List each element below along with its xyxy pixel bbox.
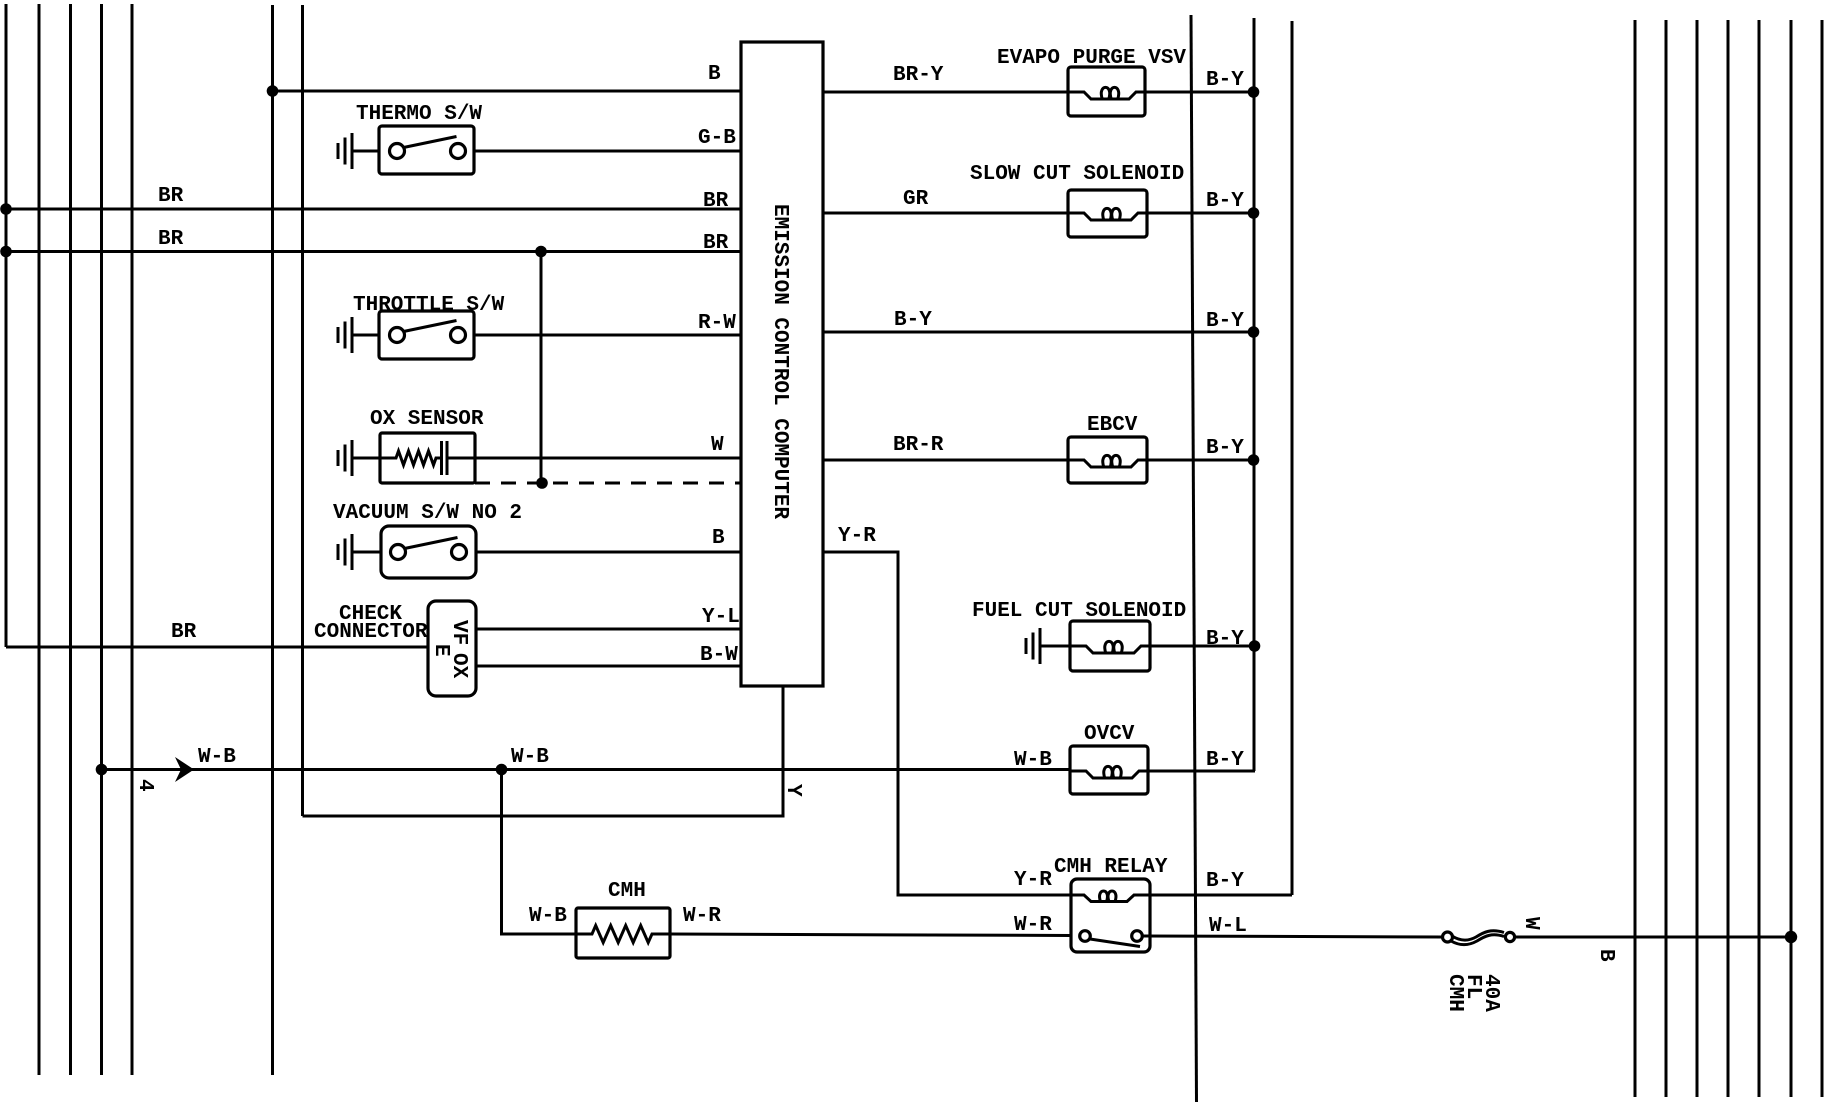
svg-text:W: W bbox=[1519, 917, 1542, 930]
solenoid L3: EBCV bbox=[1068, 414, 1147, 483]
node: junction BR lower / branch to dashed bbox=[535, 246, 547, 258]
svg-text:Y: Y bbox=[781, 784, 804, 797]
ground (vacuum switch) bbox=[338, 534, 381, 570]
label BR (left, upper) bbox=[158, 185, 184, 208]
wire: left bus line 4 bbox=[100, 4, 103, 1075]
label B bbox=[708, 63, 721, 86]
op-amp U1: emission control computer box bbox=[741, 42, 823, 686]
node: junction bus6/B wire bbox=[267, 85, 279, 97]
svg-text:B-Y: B-Y bbox=[1206, 190, 1244, 213]
svg-text:W: W bbox=[711, 434, 724, 457]
svg-text:VF: VF bbox=[447, 620, 470, 645]
wire W-R: CMH resistor to CMH relay bbox=[670, 934, 1071, 936]
switch S2: THROTTLE S/W bbox=[353, 294, 505, 359]
label G-B bbox=[698, 127, 736, 150]
label W-B (mid) bbox=[511, 746, 549, 769]
label R-W bbox=[698, 312, 736, 335]
svg-text:B: B bbox=[1594, 949, 1617, 962]
wire W-L: relay switch to fuse bbox=[1142, 936, 1443, 937]
wire B-Y: relay coil to bus bbox=[1150, 894, 1292, 897]
wire: branch from W-B down to CMH resistor bbox=[502, 770, 577, 935]
label W bbox=[711, 434, 724, 457]
wire: mid vertical line 3 (B-Y relay riser) bbox=[1291, 21, 1294, 895]
label 40A FL CMH (rotated) bbox=[1443, 974, 1502, 1012]
wire: vertical branch from BR lower to dashed OX line bbox=[540, 252, 543, 484]
node: junction bus1/BR upper bbox=[0, 203, 12, 215]
label BR (left, lower) bbox=[158, 228, 184, 251]
label B (vacuum) bbox=[712, 527, 725, 550]
svg-text:VACUUM S/W NO 2: VACUUM S/W NO 2 bbox=[333, 502, 522, 525]
label W-R (at CMH resistor) bbox=[683, 905, 721, 928]
wire: right bus line 4 bbox=[1727, 20, 1730, 1097]
wire: left bus line 2 bbox=[38, 4, 41, 1075]
label B-Y (slow cut) bbox=[1206, 190, 1244, 213]
node: junction bus4/W-B bbox=[96, 764, 108, 776]
svg-text:G-B: G-B bbox=[698, 127, 736, 150]
svg-text:W-B: W-B bbox=[529, 905, 567, 928]
label W-B (left) bbox=[198, 746, 236, 769]
node: junction B-Y mid bbox=[1248, 326, 1260, 338]
wire: right bus line 6 bbox=[1790, 20, 1793, 1097]
wire BR-R: computer to EBCV bbox=[823, 459, 1068, 462]
wire GR: computer to slow cut solenoid bbox=[823, 212, 1068, 215]
label BR (at computer, upper) bbox=[703, 190, 729, 213]
svg-text:BR-Y: BR-Y bbox=[893, 64, 944, 87]
svg-text:W-R: W-R bbox=[683, 905, 721, 928]
wire: left bus line 3 bbox=[69, 4, 72, 1075]
wire B: vacuum switch to computer bbox=[476, 551, 741, 554]
label B (rotated) bbox=[1594, 949, 1617, 962]
svg-text:W-R: W-R bbox=[1014, 914, 1052, 937]
svg-text:B-W: B-W bbox=[700, 644, 738, 667]
ground (fuel cut solenoid) bbox=[1026, 628, 1070, 664]
svg-text:CMH: CMH bbox=[608, 880, 646, 903]
resistor R1: CMH bbox=[576, 880, 670, 958]
wire Y-R: computer to CMH relay coil bbox=[823, 552, 1071, 895]
label B-Y (mid right) bbox=[1206, 310, 1244, 333]
svg-text:OX: OX bbox=[447, 653, 470, 679]
wire: right bus line 2 bbox=[1665, 20, 1668, 1097]
wire: left bus line 1 bbox=[5, 4, 8, 647]
wire B-Y: fuel cut solenoid to bus bbox=[1150, 645, 1255, 648]
label B-Y (EBCV) bbox=[1206, 437, 1244, 460]
node: junction W wire / right bus line 6 bbox=[1785, 931, 1797, 943]
ground (ox sensor) bbox=[338, 440, 380, 476]
svg-text:W-B: W-B bbox=[198, 746, 236, 769]
relay K1: CMH RELAY bbox=[1054, 856, 1168, 952]
svg-text:B: B bbox=[708, 63, 721, 86]
label GR bbox=[903, 188, 929, 211]
svg-text:Y-R: Y-R bbox=[1014, 869, 1052, 892]
label Y-L bbox=[702, 606, 740, 629]
label B-Y (evapo) bbox=[1206, 69, 1244, 92]
svg-text:THERMO S/W: THERMO S/W bbox=[356, 103, 482, 126]
svg-text:BR: BR bbox=[703, 232, 729, 255]
wire Y-L: check connector to computer bbox=[476, 628, 741, 631]
svg-text:SLOW CUT SOLENOID: SLOW CUT SOLENOID bbox=[970, 163, 1184, 186]
label B-Y (fuel cut) bbox=[1206, 628, 1244, 651]
node: junction B-Y slow cut bbox=[1248, 207, 1260, 219]
label W-R (relay) bbox=[1014, 914, 1052, 937]
wire: right bus line 5 bbox=[1758, 20, 1761, 1097]
label Y-R (top) bbox=[838, 525, 876, 548]
ground (thermo switch) bbox=[338, 133, 379, 169]
node: junction B-Y EBCV bbox=[1248, 454, 1260, 466]
wire: net Y from bus to computer bottom bbox=[303, 686, 784, 816]
label BR-Y bbox=[893, 64, 944, 87]
wire: right bus line 7 bbox=[1821, 20, 1824, 1097]
svg-text:BR: BR bbox=[703, 190, 729, 213]
svg-text:CMH RELAY: CMH RELAY bbox=[1054, 856, 1168, 879]
svg-text:CONNECTOR: CONNECTOR bbox=[314, 621, 428, 644]
wire: right bus line 3 bbox=[1696, 20, 1699, 1097]
wire BR-Y: computer to evapo purge VSV bbox=[823, 91, 1068, 94]
wire: left bus line 5 bbox=[131, 4, 134, 1075]
fuse F1: 40A FL CMH bbox=[1443, 931, 1515, 945]
wire: left bus line 6 bbox=[271, 5, 274, 1075]
arrow on W-B wire bbox=[175, 757, 194, 782]
label B-Y (OVCV) bbox=[1206, 749, 1244, 772]
label W (fuse, rotated) bbox=[1519, 917, 1542, 930]
switch S3: VACUUM S/W NO 2 bbox=[333, 502, 522, 578]
wire: left bus line 7 bbox=[301, 5, 304, 816]
label W-B (OVCV) bbox=[1014, 749, 1052, 772]
label Y (rotated) bbox=[781, 784, 804, 797]
svg-text:W-B: W-B bbox=[1014, 749, 1052, 772]
wire B: bus line 6 to computer bbox=[273, 90, 742, 93]
svg-text:B-Y: B-Y bbox=[1206, 628, 1244, 651]
wire G-B: thermo switch to computer bbox=[474, 150, 741, 153]
wire: mid vertical line 1 bbox=[1191, 15, 1197, 1102]
node: junction W-B / branch to CMH resistor bbox=[496, 764, 508, 776]
wire B-W: check connector to computer bbox=[476, 665, 741, 668]
wire B-Y: OVCV to bus bbox=[1148, 770, 1255, 773]
wire (dashed): ox sensor to computer bbox=[475, 482, 741, 485]
label BR-R bbox=[893, 434, 944, 457]
connector J1: CHECK CONNECTOR bbox=[314, 601, 476, 696]
wire W-B: bus line 4 to OVCV bbox=[102, 768, 1071, 771]
svg-text:R-W: R-W bbox=[698, 312, 736, 335]
svg-text:4: 4 bbox=[133, 779, 156, 792]
svg-text:GR: GR bbox=[903, 188, 929, 211]
svg-text:B-Y: B-Y bbox=[1206, 749, 1244, 772]
svg-text:B-Y: B-Y bbox=[894, 309, 932, 332]
svg-text:EBCV: EBCV bbox=[1087, 414, 1138, 437]
svg-text:BR-R: BR-R bbox=[893, 434, 944, 457]
wire BR (lower): bus line 1 to computer bbox=[6, 250, 741, 253]
label B-Y (mid left) bbox=[894, 309, 932, 332]
wire W: ox sensor to computer bbox=[475, 457, 741, 460]
label B-Y (relay) bbox=[1206, 870, 1244, 893]
svg-text:EMISSION CONTROL COMPUTER: EMISSION CONTROL COMPUTER bbox=[768, 204, 791, 519]
svg-text:OVCV: OVCV bbox=[1084, 723, 1135, 746]
svg-text:CMH: CMH bbox=[1443, 974, 1466, 1012]
solenoid L1: EVAPO PURGE VSV bbox=[997, 47, 1186, 116]
svg-text:OX SENSOR: OX SENSOR bbox=[370, 408, 484, 431]
switch S1: THERMO S/W bbox=[356, 103, 482, 174]
svg-text:B: B bbox=[712, 527, 725, 550]
svg-text:BR: BR bbox=[171, 621, 197, 644]
wire R-W: throttle switch to computer bbox=[474, 334, 741, 337]
solenoid L4: FUEL CUT SOLENOID bbox=[972, 600, 1186, 671]
wire BR (upper): bus line 1 to computer bbox=[6, 208, 741, 211]
wire: mid vertical line 2 (B-Y bus) bbox=[1253, 18, 1256, 771]
solenoid L2: SLOW CUT SOLENOID bbox=[970, 163, 1184, 237]
label BR (check connector) bbox=[171, 621, 197, 644]
label Y-R (relay) bbox=[1014, 869, 1052, 892]
svg-text:B-Y: B-Y bbox=[1206, 310, 1244, 333]
wire B-Y: EBCV to bus bbox=[1147, 459, 1254, 462]
label 4 (rotated) bbox=[133, 779, 156, 792]
label BR (at computer, lower) bbox=[703, 232, 729, 255]
svg-text:B-Y: B-Y bbox=[1206, 870, 1244, 893]
label B-W bbox=[700, 644, 738, 667]
ground (throttle switch) bbox=[338, 317, 379, 353]
wire W: fuse to right bus bbox=[1515, 936, 1791, 939]
wire B-Y: slow cut solenoid to bus bbox=[1147, 212, 1254, 215]
solenoid L5: OVCV bbox=[1070, 723, 1148, 794]
svg-text:W-L: W-L bbox=[1209, 915, 1247, 938]
node: junction branch/dashed wire bbox=[536, 477, 548, 489]
node: junction B-Y evapo bbox=[1248, 86, 1260, 98]
svg-text:B-Y: B-Y bbox=[1206, 437, 1244, 460]
svg-text:Y-R: Y-R bbox=[838, 525, 876, 548]
label W-L bbox=[1209, 915, 1247, 938]
sensor B1: OX SENSOR bbox=[370, 408, 484, 483]
node: junction bus1/BR lower bbox=[0, 246, 12, 258]
svg-text:W-B: W-B bbox=[511, 746, 549, 769]
wire B-Y: evapo purge VSV to bus bbox=[1145, 91, 1254, 94]
node: junction B-Y fuel cut bbox=[1249, 640, 1261, 652]
label W-B (at CMH resistor) bbox=[529, 905, 567, 928]
wire B-Y: computer direct to bus bbox=[823, 331, 1254, 334]
wire: right bus line 1 bbox=[1634, 20, 1637, 1097]
wire BR: bus line 1 to check connector bbox=[6, 646, 428, 649]
svg-text:BR: BR bbox=[158, 228, 184, 251]
svg-text:THROTTLE S/W: THROTTLE S/W bbox=[353, 294, 505, 317]
svg-text:B-Y: B-Y bbox=[1206, 69, 1244, 92]
svg-text:Y-L: Y-L bbox=[702, 606, 740, 629]
svg-text:BR: BR bbox=[158, 185, 184, 208]
